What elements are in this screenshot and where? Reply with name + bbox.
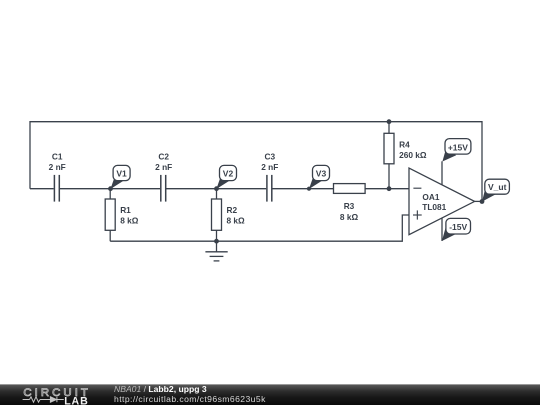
net +15V callout	[442, 139, 471, 162]
svg-text:-15V: -15V	[449, 222, 467, 232]
svg-text:V3: V3	[316, 168, 327, 178]
svg-text:V_ut: V_ut	[488, 182, 507, 192]
svg-text:R3: R3	[344, 201, 355, 211]
wire: bottom rail from R1 to op-amp plus input	[110, 215, 409, 241]
wire: main input row left segment	[30, 188, 54, 190]
svg-text:R1: R1	[120, 205, 131, 215]
footer title text	[114, 385, 266, 404]
node V1 junction dot	[108, 186, 113, 191]
resistor R3	[334, 184, 366, 194]
resistor R4	[384, 122, 394, 189]
wire: top feedback rail	[30, 122, 482, 202]
node V2 junction dot	[214, 186, 219, 191]
svg-text:TL081: TL081	[422, 202, 446, 212]
wire: R3 to op-amp minus input	[365, 188, 409, 190]
svg-text:8 kΩ: 8 kΩ	[227, 215, 246, 225]
svg-text:LAB: LAB	[64, 395, 88, 406]
svg-text:C2: C2	[158, 152, 169, 162]
net -15V callout	[442, 218, 471, 241]
svg-text:R4: R4	[399, 140, 410, 150]
node ground junction dot	[214, 239, 219, 244]
node R4 bottom junction dot	[387, 186, 392, 191]
node R4 top junction dot	[387, 119, 392, 124]
svg-text:C1: C1	[52, 152, 63, 162]
svg-text:V2: V2	[223, 168, 234, 178]
wire: C2 to V2 node	[166, 188, 217, 190]
node V1 callout	[111, 165, 131, 189]
net V_ut callout	[482, 179, 509, 201]
svg-text:R2: R2	[227, 205, 238, 215]
capacitor C2	[161, 175, 166, 202]
resistor R1	[105, 189, 115, 242]
svg-text:2 nF: 2 nF	[49, 162, 66, 172]
node V3 junction dot	[307, 187, 311, 191]
footer bar	[0, 384, 540, 405]
svg-text:2 nF: 2 nF	[261, 162, 278, 172]
svg-text:8 kΩ: 8 kΩ	[340, 212, 359, 222]
ground	[205, 241, 227, 261]
svg-text:8 kΩ: 8 kΩ	[120, 215, 139, 225]
CircuitLab logo	[0, 385, 110, 406]
svg-text:C3: C3	[264, 152, 275, 162]
wire: C1 to V1 node	[59, 188, 110, 190]
resistor R2	[212, 189, 222, 242]
node V3 callout	[309, 165, 330, 189]
node output junction dot	[480, 199, 485, 204]
wire: V+ pin	[441, 161, 443, 185]
svg-text:260 kΩ: 260 kΩ	[399, 150, 427, 160]
svg-text:OA1: OA1	[422, 192, 439, 202]
capacitor C1	[54, 175, 59, 202]
op-amp plus input symbol	[413, 210, 422, 219]
wire: V2 node to C3	[217, 188, 267, 190]
capacitor C3	[267, 175, 272, 202]
wire: op-amp output pin	[475, 200, 482, 202]
svg-text:V1: V1	[116, 168, 127, 178]
wire: V- pin	[441, 218, 443, 241]
op-amp OA1 body	[409, 168, 475, 235]
wire: V1 node to C2	[111, 188, 161, 190]
svg-text:2 nF: 2 nF	[155, 162, 172, 172]
wire: C3 to R3	[272, 188, 334, 190]
node V2 callout	[216, 165, 236, 189]
op-amp minus input symbol	[413, 187, 421, 189]
svg-text:+15V: +15V	[448, 142, 468, 152]
